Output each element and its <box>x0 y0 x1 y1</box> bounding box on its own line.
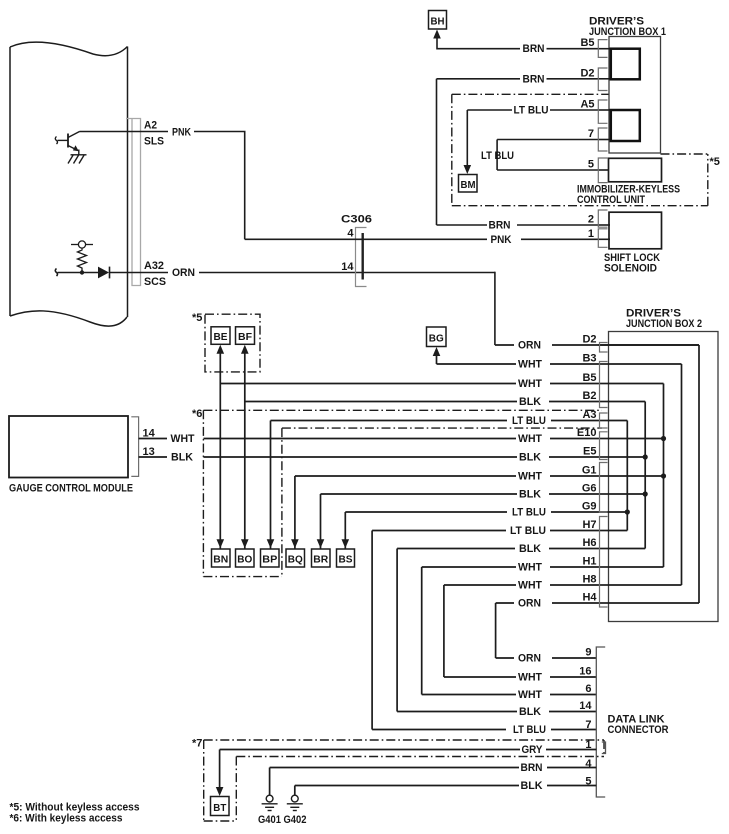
wire LT BLU BP to junction box 2 pin A3 <box>271 421 599 549</box>
svg-text:E5: E5 <box>583 446 596 458</box>
svg-text:BM: BM <box>461 179 476 191</box>
svg-text:PNK: PNK <box>172 127 191 139</box>
svg-text:WHT: WHT <box>518 471 542 483</box>
svg-text:BN: BN <box>213 554 228 566</box>
svg-text:H1: H1 <box>582 556 596 568</box>
svg-text:BP: BP <box>262 554 277 566</box>
svg-text:*6: *6 <box>192 408 202 420</box>
svg-text:16: 16 <box>579 666 591 678</box>
wire WHT junction box 2 pin H1 to data link pin 6 <box>422 567 597 695</box>
svg-text:LT BLU: LT BLU <box>510 525 546 537</box>
pin bracket G1/G6/G9 group <box>600 463 608 513</box>
wire WHT junction box 2 pin H8 to data link pin 16 <box>444 585 596 677</box>
pin bracket H7..H4 group <box>600 517 608 608</box>
svg-text:H4: H4 <box>582 592 597 604</box>
svg-text:G6: G6 <box>582 483 597 495</box>
gauge control module <box>9 416 128 478</box>
pin bracket 1 <box>598 229 607 248</box>
svg-text:1: 1 <box>588 228 594 240</box>
dash-dot box *5 (BE/BF) <box>205 314 260 372</box>
wire BRN junction box 1 pin D2 to shift lock solenoid pin 2 <box>437 79 599 225</box>
wire LT BLU jumper pin 7 to pin 5 <box>497 140 598 171</box>
pin bracket A3 <box>600 413 608 428</box>
svg-text:GAUGE CONTROL MODULE: GAUGE CONTROL MODULE <box>9 483 133 495</box>
svg-text:14: 14 <box>341 261 354 273</box>
svg-text:2: 2 <box>588 214 594 226</box>
ground G401 <box>262 795 278 810</box>
svg-text:14: 14 <box>143 427 156 439</box>
svg-text:5: 5 <box>585 776 591 788</box>
svg-text:BS: BS <box>339 554 353 566</box>
arrowheads into BN..BS <box>217 539 225 548</box>
junction box 2 internal bus WHT B3-H8 <box>444 364 682 585</box>
svg-text:LT BLU: LT BLU <box>514 105 549 117</box>
svg-text:PNK: PNK <box>491 234 512 246</box>
svg-text:BRN: BRN <box>489 220 511 232</box>
svg-text:G401: G401 <box>258 814 281 826</box>
svg-text:A2: A2 <box>144 120 157 132</box>
svg-text:B2: B2 <box>582 390 596 402</box>
wire PNK C306 pin 4 to shift lock solenoid pin 1 <box>245 238 598 240</box>
wire WHT junction box 2 pin B3 to BG <box>437 352 599 364</box>
wire BLK BO to BF with branch to junction box 2 pin B2 <box>245 351 598 549</box>
wire BLK G402 to data link pin 5 <box>295 786 597 796</box>
connector BG <box>427 327 447 347</box>
wire WHT gauge pin 14 to junction box 2 pin E10 <box>139 438 598 440</box>
svg-text:BLK: BLK <box>519 452 541 464</box>
svg-text:7: 7 <box>585 719 591 731</box>
svg-text:D2: D2 <box>582 334 596 346</box>
junction dot G9 <box>625 509 630 514</box>
svg-text:WHT: WHT <box>518 580 542 592</box>
svg-text:G1: G1 <box>582 465 597 477</box>
wire stubs through junction box 1 pins <box>598 49 612 240</box>
svg-text:4: 4 <box>347 228 354 240</box>
connector BT <box>211 797 230 816</box>
svg-text:CONNECTOR: CONNECTOR <box>608 724 669 736</box>
svg-text:WHT: WHT <box>518 359 542 371</box>
svg-text:*5: *5 <box>192 312 202 324</box>
dash-dot region *7 (GRY row) <box>204 740 604 821</box>
pin bracket 5 <box>598 158 607 183</box>
svg-text:BRN: BRN <box>523 73 545 85</box>
svg-text:ORN: ORN <box>518 653 541 665</box>
junction dot E10 <box>661 436 666 441</box>
wire LT BLU junction box 2 pin H7 to data link pin 7 <box>372 531 596 730</box>
connector BS <box>337 549 355 567</box>
svg-text:BO: BO <box>237 554 252 566</box>
resistor (pull-up) <box>78 248 87 272</box>
wire WHT BQ to junction box 2 pin G1 <box>295 476 598 549</box>
pin bracket D2 <box>598 68 607 91</box>
svg-text:14: 14 <box>579 700 592 712</box>
svg-text:SCS: SCS <box>144 276 166 288</box>
wire LT BLU junction box 1 pin A5 to BM <box>467 110 598 168</box>
svg-text:B3: B3 <box>582 353 596 365</box>
svg-text:H7: H7 <box>582 519 596 531</box>
svg-text:H6: H6 <box>582 537 596 549</box>
svg-text:5: 5 <box>588 159 594 171</box>
svg-text:GRY: GRY <box>522 744 544 756</box>
control module (partial, top left) <box>10 42 128 326</box>
svg-text:ORN: ORN <box>518 340 541 352</box>
svg-text:G402: G402 <box>284 814 307 826</box>
junction box 1 internal link B5-D2 <box>611 49 640 80</box>
pin 1 bracket (data link) <box>602 742 606 754</box>
svg-text:H8: H8 <box>582 574 596 586</box>
svg-text:4: 4 <box>585 758 592 770</box>
junction box 2 internal bus WHT B5-E10-G1-H1 <box>422 384 664 568</box>
ground G402 <box>287 795 303 810</box>
connector BE <box>211 327 230 345</box>
svg-text:BH: BH <box>431 16 445 28</box>
svg-text:LT BLU: LT BLU <box>481 150 514 162</box>
connector BH <box>429 11 447 30</box>
svg-text:A5: A5 <box>580 99 594 111</box>
pin bracket A5 <box>598 100 607 123</box>
voltage source (pull-up supply) <box>71 241 93 248</box>
svg-text:BE: BE <box>214 331 228 343</box>
immobilizer-keyless control unit <box>609 158 662 182</box>
svg-text:*7: *7 <box>192 738 202 750</box>
connector BM <box>459 175 478 193</box>
svg-text:WHT: WHT <box>171 433 195 445</box>
junction dot E5 <box>643 454 648 459</box>
wire BRN to BH and junction box 1 pin B5 <box>437 36 598 50</box>
dash-dot region *6 (keyless) <box>203 410 602 576</box>
svg-text:BRN: BRN <box>523 43 545 55</box>
svg-text:BLK: BLK <box>519 543 541 555</box>
svg-text:A32: A32 <box>144 260 164 272</box>
wire ORN pin D2 row <box>495 344 699 346</box>
svg-text:B5: B5 <box>580 37 594 49</box>
svg-text:WHT: WHT <box>518 689 542 701</box>
svg-text:*5: *5 <box>710 156 720 168</box>
wire BRN G401 to data link pin 4 <box>270 768 597 796</box>
connector BO <box>236 549 255 567</box>
svg-text:SOLENOID: SOLENOID <box>604 262 657 274</box>
svg-text:ORN: ORN <box>172 267 195 279</box>
svg-text:SLS: SLS <box>144 136 164 148</box>
gauge module pin bracket <box>131 417 138 477</box>
node A32 junction dot <box>80 270 84 274</box>
svg-text:6: 6 <box>585 683 591 695</box>
connector BN <box>212 549 231 567</box>
wire PNK from transistor to pin A2 <box>80 132 246 240</box>
pin wires through brackets (rows at pins) <box>598 345 609 603</box>
pin bracket B5 <box>598 40 607 58</box>
wire ORN junction box 2 pin H4 to data link pin 9 <box>496 603 597 658</box>
data link connector bracket <box>596 647 605 797</box>
junction dot G1 <box>661 473 666 478</box>
junction dot G6 <box>643 491 648 496</box>
svg-text:WHT: WHT <box>518 562 542 574</box>
connector shell (gray) on module edge <box>126 119 141 286</box>
svg-text:BRN: BRN <box>521 762 543 774</box>
pin bracket B3/B5/B2 group <box>600 362 608 408</box>
wire BLK BR to junction box 2 pin G6 <box>321 494 599 549</box>
wire BLK gauge pin 13 to junction box 2 pin E5 <box>139 456 598 458</box>
svg-text:*6: With keyless access: *6: With keyless access <box>10 813 123 825</box>
svg-text:ORN: ORN <box>518 598 541 610</box>
wire ORN from internal node to pin A32 <box>55 269 495 346</box>
svg-text:BLK: BLK <box>171 452 193 464</box>
diode <box>98 267 109 279</box>
svg-text:E10: E10 <box>577 427 597 439</box>
svg-text:BF: BF <box>238 331 253 343</box>
wire LT BLU BS to junction box 2 pin G9 <box>345 512 598 549</box>
wire GRY BT to data link pin 1 <box>220 750 597 791</box>
svg-text:BLK: BLK <box>519 489 541 501</box>
pin bracket E10/E5 group <box>600 432 608 460</box>
connector BQ <box>286 549 305 567</box>
svg-text:G9: G9 <box>582 501 597 513</box>
svg-text:BG: BG <box>429 333 444 345</box>
svg-text:BR: BR <box>313 554 328 566</box>
connector BF <box>236 327 255 345</box>
svg-text:BLK: BLK <box>521 780 543 792</box>
svg-text:BT: BT <box>213 802 227 814</box>
svg-text:BLK: BLK <box>519 706 541 718</box>
dash-dot box *5 (immobilizer-keyless region) <box>452 94 708 205</box>
pin bracket 2 <box>598 210 607 227</box>
connector BR <box>312 549 331 567</box>
svg-text:JUNCTION BOX 2: JUNCTION BOX 2 <box>626 318 702 330</box>
shift lock solenoid <box>609 212 662 249</box>
svg-text:LT BLU: LT BLU <box>512 415 546 427</box>
connector BP <box>261 549 280 567</box>
junction box 2 internal bus ORN D2-H4 <box>496 345 699 603</box>
svg-text:CONTROL UNIT: CONTROL UNIT <box>577 194 645 206</box>
transistor Q (output driver) <box>55 132 79 150</box>
svg-text:WHT: WHT <box>518 672 542 684</box>
junction box 2 internal bus BLK B2-E5-G6-H6 <box>397 402 645 549</box>
svg-text:9: 9 <box>585 647 591 659</box>
svg-text:LT BLU: LT BLU <box>512 507 546 519</box>
junction box 1 internal link A5-7 <box>611 110 640 141</box>
svg-text:BQ: BQ <box>288 554 303 566</box>
svg-text:7: 7 <box>588 128 594 140</box>
wire WHT BN to BE with branch to junction box 2 pin B5 <box>220 351 598 549</box>
svg-text:WHT: WHT <box>518 433 542 445</box>
svg-text:C306: C306 <box>341 214 372 226</box>
ground (transistor emitter) <box>68 150 87 164</box>
junction box 2 internal bus LT BLU A3-G9-H7 <box>372 421 627 531</box>
svg-text:A3: A3 <box>582 409 596 421</box>
svg-text:LT BLU: LT BLU <box>513 724 546 736</box>
svg-text:BLK: BLK <box>519 396 541 408</box>
svg-text:B5: B5 <box>582 372 596 384</box>
svg-text:D2: D2 <box>580 67 594 79</box>
wire BLK junction box 2 pin H6 to data link pin 14 <box>397 549 596 712</box>
svg-text:1: 1 <box>585 739 591 751</box>
pin bracket D2 (box 2) <box>600 343 608 353</box>
pin bracket 7 <box>598 128 607 151</box>
svg-text:WHT: WHT <box>518 378 542 390</box>
